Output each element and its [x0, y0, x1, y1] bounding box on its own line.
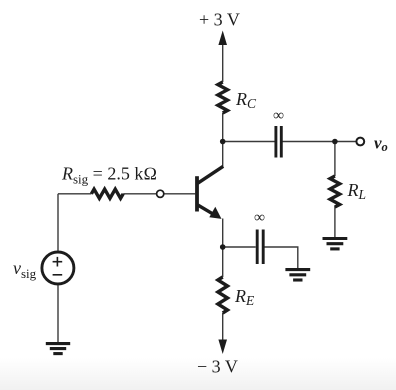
svg-text:− 3 V: − 3 V: [197, 357, 238, 377]
svg-text:∞: ∞: [273, 107, 284, 124]
svg-text:∞: ∞: [254, 209, 265, 226]
svg-text:+ 3 V: + 3 V: [199, 10, 240, 30]
